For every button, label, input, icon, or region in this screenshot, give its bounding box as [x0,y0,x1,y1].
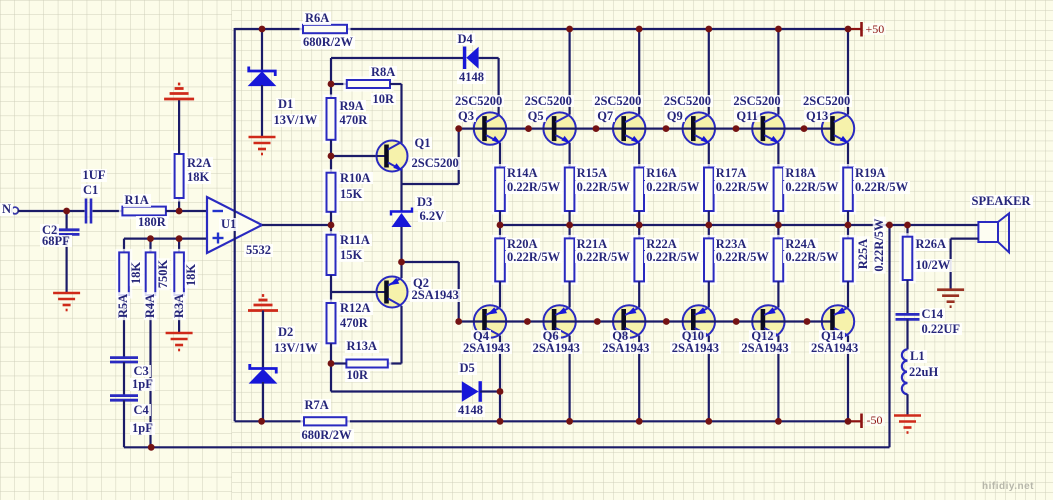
node: -50 rail [705,418,712,425]
wire: R4A down to sense wire [149,295,151,447]
wire: -50 power stub [848,420,861,422]
node: PNP base rail [804,318,811,325]
capacitor C14 0.22UF [896,314,920,319]
label 18K (rotated) [130,260,143,286]
transistor Q1 2SC5200 [377,141,408,172]
node: NPN base rail [593,125,600,132]
wire: Q11 collector from +50 rail [777,29,779,115]
wire: output rail to R21A [568,225,570,238]
transistor Q7 2SC5200 body [613,112,645,144]
resistor R3A 18K [172,250,186,297]
label 2SA1943 [739,342,790,355]
wire: R23A to Q10 emitter [708,281,710,307]
wire: speaker return [951,238,979,240]
wire: D2 to bottom rail [262,382,264,421]
label 470R [338,317,370,330]
node: NPN base rail start [455,125,462,132]
capacitor C2 68PF [55,230,80,235]
wire: R9A to R10A (Q1 base tap) [330,140,332,173]
node: D5 junction [497,388,504,395]
power -50 bar [860,414,863,429]
node: Q2 emitter/D3 [398,259,405,266]
label R22A [644,238,679,251]
transistor Q12 symbol [763,307,779,335]
label 2SA1943 [809,342,860,355]
wire: Q12 collector to -50 rail [777,336,779,422]
label Q8 [610,330,630,343]
node: output rail [845,222,852,229]
ground (R3A) [166,333,193,350]
wire: Q6 collector to -50 rail [568,336,570,422]
label R15A [575,167,610,180]
label R23A [714,238,749,251]
wire: Q3 emitter to R [499,143,501,168]
label C2 [40,224,59,237]
label U1 [219,218,238,231]
node: R13A [328,360,335,367]
watermark hifidiy.net [982,481,1034,492]
wire: Q9 collector from +50 rail [708,29,710,115]
resistor R15A 0.22R/5W [563,166,577,214]
wire: Q2 collector to R13A [400,306,402,364]
wire: ground to D2 [262,311,264,369]
label 0.22R/5W [714,251,771,264]
wire: output rail to R20A [499,225,501,238]
label 0.22R/5W [783,251,840,264]
wire: Q7 collector from +50 rail [638,29,640,115]
label Q13 [804,110,830,123]
resistor R4A 750K [144,250,158,297]
wire: Q11 emitter to R [777,143,779,168]
label 2SA1943 [670,342,721,355]
label C1 [81,184,100,197]
label Q5 [526,110,546,123]
label 15K [338,249,364,262]
label 22uH [907,366,940,379]
label 10/2W [914,259,953,272]
wire: Q5 collector from +50 rail [568,29,570,115]
wire: +50 top rail [235,28,849,30]
wire: R2A branch down to minus node [178,198,180,211]
label R26A [914,238,949,251]
wire: R22A to Q8 emitter [638,281,640,307]
label R16A [644,167,679,180]
wire: R17A to output rail [708,211,710,225]
node: output rail [566,222,573,229]
transistor Q10 2SA1943 body [683,305,715,337]
label R24A [783,238,818,251]
label 6.2V [418,210,447,223]
wire: D5 to Q4 collector column [480,390,500,392]
transistor Q7 symbol [624,115,641,144]
node: PNP base rail [594,318,601,325]
label D1 [276,98,295,111]
resistor R1A 180R [120,205,167,218]
node: op-amp output to chain [328,222,335,229]
wire: output rail to speaker [500,224,978,226]
label 1pF [130,378,155,391]
wire: Q14 collector to -50 rail [847,336,849,422]
transistor Q11 symbol [763,115,780,144]
label 2SC5200 [453,95,504,108]
label 0.22R/5W (rotated) [872,216,885,273]
label D2 [276,326,295,339]
node: PNP base rail [733,318,740,325]
wire: chain to R13A [331,362,346,364]
speaker SPEAKER [978,213,1009,252]
label 0.22R/5W [644,181,701,194]
resistor R18A 0.22R/5W [772,166,786,214]
wire: R3A riser [178,239,180,253]
zener D3 6.2V [391,208,412,228]
label 18K (rotated) [184,262,197,288]
wire: R26A to C14 [906,280,908,314]
label R4A (rotated) [144,292,157,320]
label 0.22R/5W [783,181,840,194]
transistor Q8 2SA1943 body [613,305,645,337]
wire: PNP base rail [459,320,832,322]
wire: D1 to ground [261,85,263,136]
label R11A [338,234,372,247]
label R12A [338,302,373,315]
node: +50 rail [636,26,643,33]
wire: op-amp plus input rail [124,238,207,240]
wire: C2 tap [65,211,67,230]
label SPEAKER [970,195,1033,208]
label L1 [908,350,927,363]
resistor R21A 0.22R/5W [563,236,577,283]
ground (speaker) [937,290,964,307]
label 2SC5200 [662,95,713,108]
label Q7 [595,110,615,123]
wire: R12A to D5 corner [330,343,332,391]
wire: R5A to C3 [123,295,125,358]
wire: R1A to op-amp minus input [166,210,207,212]
transistor Q14 symbol [833,307,849,335]
wire: R3A to ground [178,295,180,332]
wire: D1 branch from +50 rail [261,29,263,71]
label 13V/1W [272,342,320,355]
label 5532 [244,244,273,257]
node: -50 rail [775,418,782,425]
ground (above R2A) [164,84,194,99]
node: R8A/R9A [328,81,335,88]
wire: R5A corner riser [123,239,125,253]
transistor Q2 2SA1943 [377,277,408,308]
node: -50 rail [497,418,504,425]
transistor Q12 2SA1943 body [752,305,784,337]
wire: R25A to Q14 emitter [847,281,849,307]
node: C2 tap [63,208,70,215]
node: R3A [176,235,183,242]
transistor Q5 symbol [554,115,571,144]
wire: R18A to output rail [777,211,779,225]
label 0.22R/5W [505,181,562,194]
resistor R11A 15K [325,233,338,277]
resistor R26A 10/2W [901,235,915,282]
node N input terminal [12,207,19,214]
wire: R14A to output rail [499,211,501,225]
label 2SC5200 [801,95,852,108]
label Q3 [456,110,476,123]
transistor Q10 symbol [693,307,709,335]
transistor Q14 2SA1943 body [822,305,854,337]
node: +50 rail [845,26,852,33]
wire: C2 to ground [65,234,67,292]
label C4 [132,404,151,417]
label 0.22UF [920,323,963,336]
label Q11 [734,110,760,123]
node: +50 rail [775,26,782,33]
label 2SA1943 [600,342,651,355]
node: Zobel tap [904,222,911,229]
node: R4A/C4 sense [148,444,155,451]
label R25A (rotated) [856,237,869,272]
node: NPN base rail [663,125,670,132]
wire: R20A to Q4 emitter [499,281,501,307]
label R2A [185,157,213,170]
capacitor C3 1pF [110,358,138,362]
wire: node to R8A [331,83,347,85]
wire: sense wire riser at speaker [888,225,890,447]
wire: -50 bottom rail [346,420,848,422]
node: -50 rail [566,418,573,425]
label 0.22R/5W [505,251,562,264]
ground (L1) [894,416,921,433]
resistor R25A 0.22R/5W [841,236,855,283]
inductor L1 22uH [902,349,908,394]
node: sense tap [886,222,893,229]
label -50 [865,414,885,426]
resistor R20A 0.22R/5W [493,236,507,283]
transistor Q4 2SA1943 body [474,305,506,337]
transistor Q8 symbol [624,307,640,335]
label 0.22R/5W [575,251,632,264]
resistor R6A 680R/2W [301,23,349,35]
label R5A (rotated) [116,292,129,320]
label 2SC5200 [523,95,574,108]
resistor R13A 10R [344,358,389,370]
label R18A [783,167,818,180]
label 680R/2W [300,429,354,442]
label 0.22R/5W [575,181,632,194]
node: NPN base rail [525,125,532,132]
wire: Q9 emitter to R [708,143,710,168]
wire: R4A riser [149,239,151,253]
node: R4A [147,235,154,242]
label R8A [369,66,397,79]
wire: R11A to R12A [330,275,332,303]
label R1A [123,194,151,207]
wire: R21A to Q6 emitter [568,281,570,307]
wire: Q13 collector from +50 rail [847,29,849,115]
wire: output rail to R22A [638,225,640,238]
label 1UF [81,169,108,182]
node: +50 rail [705,26,712,33]
label 10R [371,93,397,106]
node: output rail [775,222,782,229]
zener D1 13V/1W [249,67,276,86]
label 2SA1943 [531,342,582,355]
node: NPN base rail [733,125,740,132]
label R13A [345,340,380,353]
label D5 [458,362,477,375]
label Q2 [411,277,431,290]
node: Q1 base [328,153,335,160]
wire: R15A to output rail [568,211,570,225]
label R20A [505,238,540,251]
wire: Q5 emitter to R [568,143,570,168]
wire: bottom sense wire [151,446,889,448]
wire: output rail to R23A [708,225,710,238]
transistor Q6 symbol [554,307,570,335]
label 2SC5200 [592,95,643,108]
label R19A [853,167,888,180]
label Q12 [749,330,775,343]
transistor Q11 2SC5200 body [752,112,784,144]
label D4 [456,33,475,46]
wire: R19A to output rail [847,211,849,225]
wire: Q1 base from chain [331,155,377,157]
label 10R [345,369,371,382]
wire: bottom feedback run to R7A [235,420,304,422]
label 15K [338,188,364,201]
label R21A [575,238,610,251]
label N [0,203,13,216]
label 2SC5200 [410,157,461,170]
wire: Q4 collector to -50 rail [499,336,501,422]
node: output rail [497,222,504,229]
wire: C3 to C4 [123,362,125,396]
zener D2 13V/1W [250,364,277,383]
label +50 [864,23,887,35]
resistor R24A 0.22R/5W [772,236,786,283]
resistor R2A 18K [173,152,186,200]
resistor R22A 0.22R/5W [632,236,646,283]
resistor R5A 18K [117,250,131,297]
wire: output rail to R24A [777,225,779,238]
wire: R10A to R11A (op-amp drive tap) [330,212,332,235]
wire: NPN base rail [459,128,832,130]
label 0.22R/5W [853,181,910,194]
transistor Q6 2SA1943 body [543,305,575,337]
wire: Q1 emitter run [400,166,402,184]
wire: input to C1 [18,210,85,212]
resistor R9A 470R [325,96,338,142]
label Q10 [680,330,706,343]
label Q9 [665,110,685,123]
label 68PF [40,235,72,248]
node: PNP base rail start [455,318,462,325]
label 2SC5200 [731,95,782,108]
label 2SA1943 [461,342,512,355]
label 180R [136,216,168,229]
label 13V/1W [272,114,320,127]
resistor R16A 0.22R/5W [632,166,646,214]
wire: D4 feed from R8A node [330,58,332,84]
wire: D3 to Q2 emitter node [400,227,402,278]
wire: Q10 collector to -50 rail [708,336,710,422]
transistor Q13 2SC5200 body [822,112,854,144]
wire: L1 to ground [906,394,908,414]
node: D1 on +50 rail [259,26,266,33]
wire: D4 to Q3 collector [479,57,499,59]
label C14 [920,308,946,321]
wire: R8A to Q1 collector [390,83,402,85]
label Q1 [413,137,433,150]
node: +50 rail [566,26,573,33]
label R9A [338,100,366,113]
label 680R/2W [301,36,355,49]
transistor Q9 symbol [693,115,710,144]
label 0.22R/5W [644,251,701,264]
capacitor C4 1pF [110,396,138,401]
wire: Q8 collector to -50 rail [638,336,640,422]
transistor Q4 symbol [485,307,501,335]
label R17A [714,167,749,180]
wire: R24A to Q12 emitter [777,281,779,307]
ground (above D2) [248,296,278,311]
diode D5 4148 [462,381,480,402]
wire: output rail to R25A [847,225,849,238]
node: D2 on -50 rail [258,418,265,425]
label R3A (rotated) [172,292,185,320]
label 4148 [457,71,486,84]
node: minus input [176,208,183,215]
wire: Q2 base from chain [331,291,377,293]
label R14A [505,167,540,180]
transistor Q5 2SC5200 body [543,112,575,144]
label Q14 [819,330,845,343]
wire: R2A up to ground [178,100,180,154]
wire: Q2 emitter node to PNP base rail [402,261,459,263]
wire: +50 power stub [848,28,861,30]
wire: op-amp output [262,224,331,226]
label R10A [338,172,373,185]
wire: R16A to output rail [638,211,640,225]
label 2SA1943 [410,289,461,302]
node: PNP base rail [524,318,531,325]
capacitor C1 1UF [86,199,91,224]
diode D4 4148 [465,47,479,70]
wire: chain node to R9A [330,84,332,98]
op-amp U1 5532 [207,197,262,253]
wire: C14 to L1 [906,319,908,349]
label 1pF [130,422,155,435]
node: output rail [705,222,712,229]
wire: left feedback bus [234,28,236,421]
transistor Q13 symbol [833,115,850,144]
label C3 [132,365,151,378]
transistor Q9 2SC5200 body [683,112,715,144]
resistor R17A 0.22R/5W [702,166,716,214]
ground (D1) [249,137,276,154]
node: -50 rail [845,418,852,425]
label R7A [303,399,331,412]
label 470R [338,114,370,127]
label Q4 [471,330,491,343]
node: -50 rail [636,418,643,425]
label 750K (rotated) [156,258,169,290]
resistor R23A 0.22R/5W [702,236,716,283]
wire: Zobel branch [906,225,908,237]
transistor Q3 symbol [485,115,502,144]
resistor R19A 0.22R/5W [841,166,855,214]
node: output rail [636,222,643,229]
resistor R10A 15K [325,171,338,214]
node: NPN base rail [801,125,808,132]
wire: C1 to R1A [93,210,123,212]
